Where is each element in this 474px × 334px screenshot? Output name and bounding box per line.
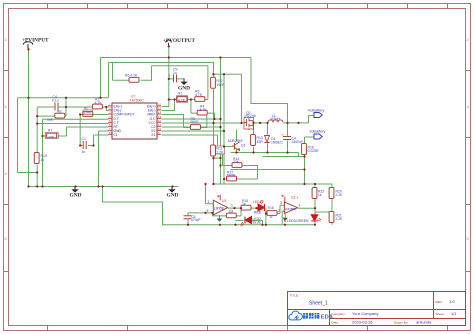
wire x42 vertical [43, 119, 109, 186]
wire bottom rail y152 [231, 153, 299, 157]
resistor R7 [45, 129, 58, 140]
wire C4 branch [37, 98, 108, 116]
svg-text:LM358: LM358 [214, 206, 224, 210]
diode D1 1N5821 [265, 136, 283, 145]
wire R8 row [37, 115, 66, 117]
svg-text:680R: 680R [227, 174, 236, 178]
svg-text:+PVINPUT: +PVINPUT [22, 37, 49, 43]
wire D1 leads [267, 123, 269, 153]
resistor R17 [227, 171, 237, 181]
wire R20 leads [331, 184, 333, 213]
wire V x112 [112, 63, 114, 81]
svg-text:16: 16 [109, 131, 113, 135]
wire EA- right [162, 100, 175, 111]
svg-text:1n: 1n [82, 150, 86, 154]
EasyEDA logo [289, 311, 334, 321]
svg-text:2: 2 [278, 209, 280, 213]
wire R13 leads [253, 123, 255, 153]
resistor R20 [329, 188, 343, 199]
wire input node H y97 [18, 97, 109, 99]
svg-text:LED3:GREEN: LED3:GREEN [287, 219, 309, 223]
svg-text:REV:: REV: [436, 300, 443, 304]
svg-text:2.2K: 2.2K [336, 193, 344, 197]
wire LED2 row [236, 221, 263, 225]
resistor R9 [83, 106, 93, 116]
wire C9 row [169, 78, 185, 80]
svg-text:R7: R7 [48, 129, 52, 133]
wire R22 leads [314, 184, 316, 209]
port -toBattery [309, 130, 326, 140]
wire E2 right [162, 130, 225, 132]
svg-text:EDA: EDA [321, 315, 334, 321]
wire C4 output leads [287, 123, 289, 153]
wire top right L to output node [251, 58, 288, 123]
LED2 blue [240, 217, 262, 227]
svg-text:1k: 1k [318, 193, 322, 197]
resistor R11 [210, 145, 225, 156]
wire R21 link [315, 212, 332, 225]
inductor L1 [268, 114, 283, 123]
wire -battery link [305, 137, 315, 145]
svg-text:1N5821: 1N5821 [271, 140, 283, 144]
svg-text:2.2K: 2.2K [336, 217, 344, 221]
wire feedback 1M [212, 208, 241, 216]
svg-text:3: 3 [280, 201, 282, 205]
svg-text:1.0: 1.0 [449, 299, 455, 304]
wire VREF right [162, 115, 184, 128]
svg-text:C1: C1 [114, 133, 118, 137]
wire H y65 [152, 66, 208, 100]
svg-text:1/1: 1/1 [451, 311, 457, 316]
svg-text:TITLE:: TITLE: [290, 294, 299, 298]
wire E1 right [162, 134, 218, 136]
wire R5 R1 row [169, 99, 196, 101]
resistor R2 [92, 97, 102, 109]
svg-text:300uH: 300uH [270, 117, 281, 121]
resistor R13 [251, 135, 264, 146]
resistor R1 [177, 92, 188, 103]
svg-text:Company:: Company: [332, 312, 346, 316]
svg-text:1M: 1M [229, 209, 234, 213]
resistor R12 [211, 77, 226, 88]
svg-text:Your Company: Your Company [352, 311, 378, 316]
wire battery minus port [298, 122, 300, 125]
wire C1 row [80, 115, 108, 146]
wire U3 out row [228, 207, 259, 209]
wire +PVINPUT vertical [28, 50, 30, 187]
svg-text:33R: 33R [257, 140, 264, 144]
svg-text:470pF: 470pF [191, 218, 201, 222]
power port +PVOUTPUT [163, 38, 196, 46]
capacitor C9 polarized [169, 67, 178, 82]
svg-text:R6 4.7K: R6 4.7K [125, 74, 138, 78]
svg-text:R1: R1 [178, 92, 182, 96]
svg-text:E1: E1 [151, 133, 155, 137]
svg-text:BLUE: BLUE [253, 220, 263, 224]
wire top H y57.5 [101, 57, 252, 59]
svg-text:GND: GND [70, 193, 82, 199]
wire rail y184 [212, 183, 332, 185]
svg-text:0.056: 0.056 [84, 111, 92, 115]
svg-text:Sheet:: Sheet: [436, 312, 445, 316]
resistor R16 [302, 144, 319, 155]
wire LED3 bottom [314, 221, 316, 224]
resistor R10 [34, 153, 47, 164]
svg-text:1k: 1k [242, 202, 246, 206]
svg-text:1k: 1k [270, 215, 274, 219]
svg-text:LM358P: LM358P [285, 207, 297, 211]
ground bottom middle [167, 186, 179, 199]
svg-text:1: 1 [299, 204, 301, 208]
svg-text:560R: 560R [191, 120, 200, 124]
wire R17 row [224, 178, 258, 180]
svg-text:14: 14 [158, 111, 162, 115]
resistor R6 [125, 74, 139, 83]
svg-text:U3: U3 [222, 199, 226, 203]
svg-text:-toBattery: -toBattery [309, 130, 326, 134]
svg-text:R18: R18 [268, 206, 274, 210]
resistor R22 [312, 188, 324, 199]
wire V x223.5 long [223, 74, 225, 184]
op-amp U2.1 LM358P [278, 195, 309, 223]
wire base link MJE [218, 135, 233, 147]
svg-text:VREF: VREF [147, 112, 156, 116]
transistor Q2 IRF246 [244, 111, 256, 130]
wire main output rail [254, 116, 315, 123]
wire sense row y156 [263, 156, 305, 158]
svg-text:0.025R: 0.025R [308, 149, 319, 153]
svg-text:LED1: LED1 [253, 200, 262, 204]
transistor Q1 MJE2955 [228, 139, 246, 150]
svg-text:Sheet_1: Sheet_1 [309, 300, 328, 306]
svg-text:4.7K: 4.7K [195, 93, 203, 97]
svg-text:1u: 1u [173, 71, 177, 75]
resistor R14 [232, 157, 242, 167]
capacitor C1 [82, 137, 87, 154]
power port +PVINPUT [22, 37, 49, 49]
wire R14 row [223, 166, 258, 180]
wire GND pin down [99, 131, 109, 187]
svg-text:4.7K: 4.7K [95, 101, 103, 105]
svg-text:C1: C1 [82, 137, 86, 141]
wire x34 down [37, 107, 108, 153]
svg-text:3300uF: 3300uF [292, 140, 304, 144]
resistor R15 [241, 199, 251, 210]
svg-text:Date:: Date: [332, 321, 340, 325]
svg-text:Q1: Q1 [241, 144, 246, 148]
svg-text:1k: 1k [41, 158, 45, 162]
LED3 green vertical [311, 215, 321, 223]
svg-text:4.7K: 4.7K [178, 98, 186, 102]
svg-text:1: 1 [231, 203, 233, 207]
wire R16 bottom [304, 155, 306, 185]
svg-text:3: 3 [208, 200, 210, 204]
svg-text:ankunda: ankunda [416, 320, 432, 325]
wire bottom jog to opamp [103, 187, 316, 225]
wire LED1 down to R18 [266, 205, 285, 224]
wire EA jog [106, 107, 108, 111]
resistor R5 [195, 89, 205, 101]
svg-text:22K: 22K [233, 160, 240, 164]
wire H y169 [231, 169, 305, 171]
capacitor C8 [184, 215, 201, 222]
title block [288, 292, 466, 326]
svg-text:5: 5 [207, 209, 209, 213]
svg-text:4.7K: 4.7K [200, 108, 208, 112]
IC U? KA7500C [108, 95, 162, 139]
resistor R8 [47, 110, 65, 123]
LED1 red [253, 200, 265, 215]
wire U3 plus in [206, 184, 214, 204]
svg-text:+toBattery: +toBattery [307, 109, 325, 113]
svg-text:Drawn By:: Drawn By: [394, 321, 408, 325]
wire VCC right [162, 122, 245, 124]
svg-text:R8: R8 [57, 110, 61, 114]
svg-text:2023-03-16: 2023-03-16 [352, 320, 373, 325]
svg-text:1.2K: 1.2K [217, 150, 225, 154]
op-amp U3 LM358 [207, 195, 234, 222]
svg-text:COMP-INPUT: COMP-INPUT [114, 112, 135, 116]
svg-text:47K: 47K [48, 135, 55, 139]
wire V x220 long [220, 58, 222, 185]
svg-text:KA7500C: KA7500C [130, 98, 145, 102]
wire ground rail [29, 186, 179, 188]
resistor R21 [329, 212, 343, 223]
resistor R18 [267, 206, 277, 219]
capacitor C4 [52, 95, 59, 110]
wire O.C right [162, 118, 221, 120]
port +toBattery [307, 109, 325, 118]
wire R6 leads [113, 66, 152, 81]
wire U2 out [298, 208, 315, 215]
wire R7 row [43, 127, 109, 136]
ground near C9 [178, 78, 190, 91]
wire R3 leads [184, 115, 207, 128]
resistor R19 1M [226, 209, 236, 217]
wire PVOUTPUT down [162, 46, 169, 107]
svg-text:10K: 10K [47, 118, 54, 122]
resistor R4 [197, 105, 207, 115]
svg-text:RED: RED [254, 211, 262, 215]
wire R12 bottom chain [214, 89, 221, 184]
svg-text:GND: GND [167, 193, 179, 199]
wire V x100 [100, 58, 102, 98]
wire COMP-INPUT left [80, 114, 108, 116]
wire R10 leads [36, 165, 38, 187]
svg-text:0.1u: 0.1u [52, 99, 59, 103]
resistor R3 [191, 117, 201, 130]
svg-text:IRF246: IRF246 [245, 114, 256, 118]
wire MJE collector emitter [236, 130, 238, 153]
svg-text:U2.1: U2.1 [291, 196, 298, 200]
ground bottom left [70, 186, 82, 199]
wire H y62 [109, 63, 242, 123]
wire C2 right [162, 126, 221, 128]
capacitor C6 3300uF [281, 132, 303, 144]
svg-text:+PVOUTPUT: +PVOUTPUT [163, 38, 196, 44]
wire R14 link up [222, 147, 224, 166]
wire U3 minus in [188, 213, 214, 225]
wire R4 row [191, 100, 215, 120]
wire left V x17 [18, 98, 38, 173]
svg-text:100R: 100R [217, 83, 226, 87]
